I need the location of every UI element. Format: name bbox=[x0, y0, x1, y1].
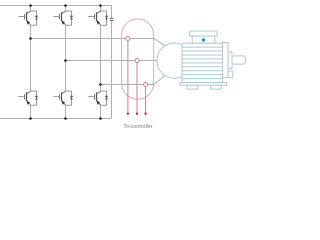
wire: leg 3 collector lead (top) bbox=[100, 6, 102, 12]
junction: leg 3 bottom bus bbox=[99, 117, 102, 120]
arrowhead CT1 bbox=[126, 113, 129, 116]
motor M1: shaft bbox=[232, 56, 245, 64]
motor M1: finned body bbox=[182, 43, 223, 82]
junction: leg 1 top bus bbox=[29, 4, 32, 7]
capacitor C1 (DC link) plates bbox=[110, 18, 113, 20]
IGBT Q4 (phase A low-side) bbox=[18, 91, 38, 105]
wire: phase C output bbox=[101, 75, 166, 85]
junction: leg 3 top bus bbox=[99, 4, 102, 7]
junction: phase node C bbox=[99, 83, 102, 86]
motor M1: terminal box lid bbox=[190, 31, 217, 36]
wire: leg 2 midpoint vertical bbox=[65, 25, 67, 91]
IGBT Q2 (phase B high-side) bbox=[53, 11, 73, 25]
wire: phase B output bbox=[66, 60, 158, 62]
motor M1: terminal box dot bbox=[202, 38, 205, 41]
junction: phase node A bbox=[29, 37, 32, 40]
junction: phase node B bbox=[64, 59, 67, 62]
IGBT Q1 (phase A high-side) bbox=[18, 11, 38, 25]
svg-text:To controller: To controller bbox=[123, 124, 153, 130]
wire: leg 1 midpoint vertical bbox=[30, 25, 32, 91]
junction: leg 2 top bus bbox=[64, 4, 67, 7]
wire: bottom DC bus bbox=[0, 118, 112, 120]
motor M1: left foot bbox=[187, 85, 198, 89]
motor M1: cooling fins bbox=[182, 46, 223, 48]
current sensor block outline (red capsule) bbox=[122, 19, 154, 99]
current sensor CT2 (circle on phase B) bbox=[135, 59, 139, 63]
current sensor CT3 lead to controller bbox=[145, 87, 147, 113]
motor M1: base plate bbox=[180, 83, 227, 86]
wire: top DC bus bbox=[0, 5, 112, 7]
motor M1: terminal box body bbox=[192, 36, 215, 43]
junction: leg 2 bottom bus bbox=[64, 117, 67, 120]
wire: right DC link vertical (lower) bbox=[111, 20, 113, 118]
current sensor CT2 lead to controller bbox=[136, 63, 138, 113]
wire: leg 3 emitter lead (bottom) bbox=[100, 105, 102, 118]
IGBT Q3 (phase C high-side) bbox=[88, 11, 108, 25]
wire: leg 2 emitter lead (bottom) bbox=[65, 105, 67, 118]
motor M1: drive-end flange bbox=[223, 43, 229, 78]
wire: leg 3 midpoint vertical bbox=[100, 25, 102, 91]
current sensor CT1 (circle on phase A) bbox=[126, 37, 130, 41]
IGBT Q5 (phase B low-side) bbox=[53, 91, 73, 105]
motor M1: right foot bbox=[210, 85, 221, 89]
wire: phase A output bbox=[31, 39, 166, 47]
arrowhead CT2 bbox=[136, 113, 139, 116]
motor M1: shaft hub bbox=[228, 52, 232, 69]
current sensor CT1 lead to controller bbox=[127, 41, 129, 113]
wire: right DC link vertical (upper) bbox=[111, 6, 113, 19]
junction: leg 1 bottom bus bbox=[29, 117, 32, 120]
motor M1: fan cowl circle bbox=[157, 43, 192, 78]
arrowhead CT3 bbox=[144, 113, 147, 116]
current sensor CT3 (circle on phase C) bbox=[144, 83, 148, 87]
wire: leg 2 collector lead (top) bbox=[65, 6, 67, 12]
IGBT Q6 (phase C low-side) bbox=[88, 91, 108, 105]
motor M1: flange tab bbox=[228, 71, 233, 78]
wire: leg 1 emitter lead (bottom) bbox=[30, 105, 32, 118]
wire: leg 1 collector lead (top) bbox=[30, 6, 32, 12]
